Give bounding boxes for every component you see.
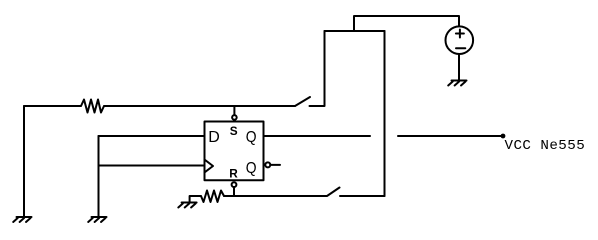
svg-text:S: S [230,124,238,138]
svg-text:R: R [229,166,238,180]
svg-text:VCC Ne555: VCC Ne555 [505,138,586,154]
svg-text:Q: Q [246,129,257,146]
svg-text:D: D [208,129,220,146]
svg-text:Q: Q [246,160,257,177]
